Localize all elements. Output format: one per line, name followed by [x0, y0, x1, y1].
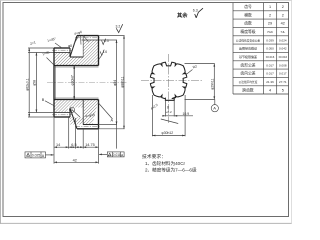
chamfer leader [55, 43, 62, 48]
bottom small dim line [164, 115, 193, 117]
pitch line large gear bottom [75, 126, 101, 128]
svg-text:齿形公差: 齿形公差 [240, 62, 255, 67]
hatch region upper right gear rim [83, 40, 98, 66]
svg-text:29: 29 [268, 22, 272, 26]
ext left face down [53, 117, 55, 164]
face dim ext top [185, 63, 215, 65]
svg-text:跨齿数: 跨齿数 [242, 87, 254, 92]
right face upper [98, 36, 100, 66]
svg-text:±0.016: ±0.016 [266, 55, 275, 59]
datum circle A [211, 105, 218, 112]
svg-text:6.3: 6.3 [104, 39, 109, 43]
chain ext phi84 down [116, 125, 118, 149]
small gear tip line top [54, 47, 70, 49]
small gear root line top [54, 52, 70, 54]
phi30 dim line [152, 135, 185, 137]
svg-text:42: 42 [73, 158, 77, 162]
svg-text:2: 2 [282, 13, 284, 17]
svg-text:10.9: 10.9 [183, 112, 190, 116]
svg-text:±0.016: ±0.016 [279, 55, 288, 59]
svg-text:14: 14 [56, 143, 60, 147]
svg-text:7GK: 7GK [267, 30, 273, 34]
tolerance frame 1 [25, 152, 46, 158]
small mark D [69, 107, 74, 112]
svg-text:齿向公差: 齿向公差 [240, 71, 255, 76]
svg-text:0.017: 0.017 [279, 72, 287, 76]
chain arrows [54, 146, 57, 148]
dim phi84 line [116, 40, 118, 125]
notch wall ext left [164, 100, 166, 116]
leader from D [72, 110, 80, 117]
svg-text:2: 2 [269, 13, 271, 17]
white wedge lower right [93, 101, 99, 124]
bore divider dim line [73, 66, 75, 99]
svg-text:2、精度等级为7—6—6级: 2、精度等级为7—6—6级 [145, 167, 197, 174]
ext outer right [184, 95, 186, 136]
right face lower [98, 100, 100, 129]
small tip ext left bottom [28, 116, 54, 118]
section leader A [98, 103, 113, 120]
tip ext right bottom [99, 128, 125, 130]
svg-text:4: 4 [269, 88, 271, 92]
dim phi88 line [123, 36, 125, 129]
svg-text:齿号: 齿号 [244, 4, 252, 9]
pitch line large gear top [75, 37, 101, 39]
note right 08 [102, 39, 106, 45]
small root extension left [28, 52, 54, 54]
svg-text:φ30h12: φ30h12 [162, 131, 174, 135]
42 arrows [54, 161, 57, 163]
hatch region upper web strip [70, 57, 83, 66]
pitch line small gear bottom [52, 114, 72, 116]
svg-text:21.36: 21.36 [266, 80, 274, 84]
svg-text:27.71: 27.71 [279, 80, 287, 84]
svg-text:精度等级: 精度等级 [240, 29, 255, 34]
left face inner line [54, 66, 56, 100]
svg-text:技术要求：: 技术要求： [142, 153, 166, 160]
tolerance frame 2 [107, 152, 124, 157]
bore bottom line [54, 99, 99, 101]
dim phi58 line [35, 53, 37, 113]
root extension right [99, 39, 118, 41]
svg-text:7JL: 7JL [280, 30, 285, 34]
svg-text:14.75: 14.75 [85, 143, 95, 147]
table text [236, 4, 288, 92]
tol frame 1 leader [46, 154, 54, 156]
drawing border frame (decorative) [3, 3, 289, 217]
root ext right bottom [99, 124, 118, 126]
svg-text:基节极限偏差: 基节极限偏差 [239, 54, 257, 59]
tip extension right [99, 35, 125, 37]
hatch region lower gear body [70, 100, 99, 125]
arrows phi62 [28, 48, 30, 51]
large gear root line bottom [83, 124, 99, 126]
face dim line [213, 64, 215, 100]
small gear root line bottom [54, 112, 70, 114]
pitch line small gear top [52, 49, 72, 51]
ext 6.5 tick down [75, 118, 77, 149]
table grid [233, 3, 289, 94]
svg-text:2: 2 [282, 5, 284, 9]
dim phi62 line [28, 48, 30, 117]
svg-text:6.5: 6.5 [71, 143, 76, 147]
leader right chamfer [99, 56, 102, 60]
svg-text:模数: 模数 [244, 12, 252, 17]
svg-text:0.039: 0.039 [266, 38, 274, 42]
hatch region lower-left rim [54, 100, 70, 113]
svg-text:0.008: 0.008 [279, 63, 287, 67]
svg-text:+0.2: +0.2 [166, 110, 172, 114]
svg-text:φ88h11: φ88h11 [120, 77, 124, 88]
hatch region upper-left rim [54, 53, 70, 66]
svg-text:5: 5 [282, 88, 284, 92]
centerline axis [47, 82, 128, 84]
step vertical lower [69, 108, 71, 117]
svg-text:1、齿轮材料为40Cr: 1、齿轮材料为40Cr [145, 160, 186, 167]
small gear tip line bottom [54, 116, 70, 118]
svg-text:φ29h11: φ29h11 [210, 79, 214, 90]
roughness top of dim [116, 24, 122, 32]
web slant upper [70, 36, 77, 57]
web boundary vertical [82, 36, 84, 57]
ext right face down [98, 129, 100, 164]
svg-text:A: A [213, 106, 216, 111]
notch wall ext right [173, 100, 175, 116]
B leader [45, 101, 54, 106]
ext gear left down [82, 129, 84, 149]
svg-text:齿圈径向跳动: 齿圈径向跳动 [239, 46, 257, 51]
horizontal centerline [141, 79, 203, 81]
arrows phi84 [116, 40, 118, 43]
left face [53, 48, 55, 117]
web trapezoid bottom [70, 56, 83, 58]
white halo D detail [68, 107, 84, 117]
svg-text:公法线长度变动公差: 公法线长度变动公差 [236, 38, 260, 42]
svg-text:公法线平均长度: 公法线平均长度 [239, 80, 258, 84]
small tip extension left [28, 47, 54, 49]
svg-text:φ58: φ58 [33, 80, 37, 86]
svg-text:0.017: 0.017 [266, 63, 274, 67]
svg-text:3.2: 3.2 [116, 25, 121, 29]
tol frame 2 leader [99, 153, 107, 155]
face dim ext bottom [185, 98, 215, 100]
large gear tip line top [77, 35, 99, 37]
ext 14 tick down [68, 117, 70, 149]
holes leader [74, 36, 79, 44]
svg-text:1.6: 1.6 [103, 50, 108, 54]
vertical centerline [168, 54, 170, 123]
svg-text:42: 42 [281, 22, 285, 26]
datum stem [214, 99, 216, 104]
svg-text:φ8: φ8 [68, 44, 72, 48]
svg-text:0.024: 0.024 [279, 38, 287, 42]
svg-text:φ30H7: φ30H7 [70, 75, 74, 85]
svg-text:其余: 其余 [177, 11, 188, 19]
bore top chamfer line [54, 66, 99, 68]
svg-text:1: 1 [269, 5, 271, 9]
svg-text:B: B [42, 98, 45, 102]
svg-text:0.050: 0.050 [266, 47, 274, 51]
arrows phi88 [123, 36, 125, 39]
bore bottom chamfer line [54, 97, 99, 99]
ext outer left [151, 95, 153, 136]
small root ext left bottom [28, 112, 54, 114]
svg-text:0.018: 0.018 [113, 153, 121, 157]
step vertical upper [69, 48, 71, 57]
web slant lower [70, 108, 77, 129]
arrows phi58 [36, 53, 38, 56]
R2 leader [186, 70, 193, 76]
jaw clutch outline [150, 62, 186, 100]
svg-text:φ84: φ84 [113, 80, 117, 86]
large gear tip line bottom [77, 128, 99, 130]
chain dimension line [54, 146, 99, 148]
dim 42 line [54, 161, 99, 163]
large gear root line top [82, 39, 99, 41]
svg-text:0.025: 0.025 [32, 154, 41, 158]
lower web boundary [82, 100, 84, 125]
bore top line [54, 65, 99, 67]
slant leader below [161, 119, 178, 124]
svg-text:0.017: 0.017 [266, 72, 274, 76]
note right chamfer [100, 50, 104, 56]
svg-text:6.3: 6.3 [193, 9, 198, 13]
svg-text:齿数: 齿数 [244, 21, 252, 26]
bottom dim arrows [162, 115, 165, 117]
svg-text:0.042: 0.042 [279, 47, 287, 51]
svg-text:φ62±0.1: φ62±0.1 [26, 78, 30, 91]
